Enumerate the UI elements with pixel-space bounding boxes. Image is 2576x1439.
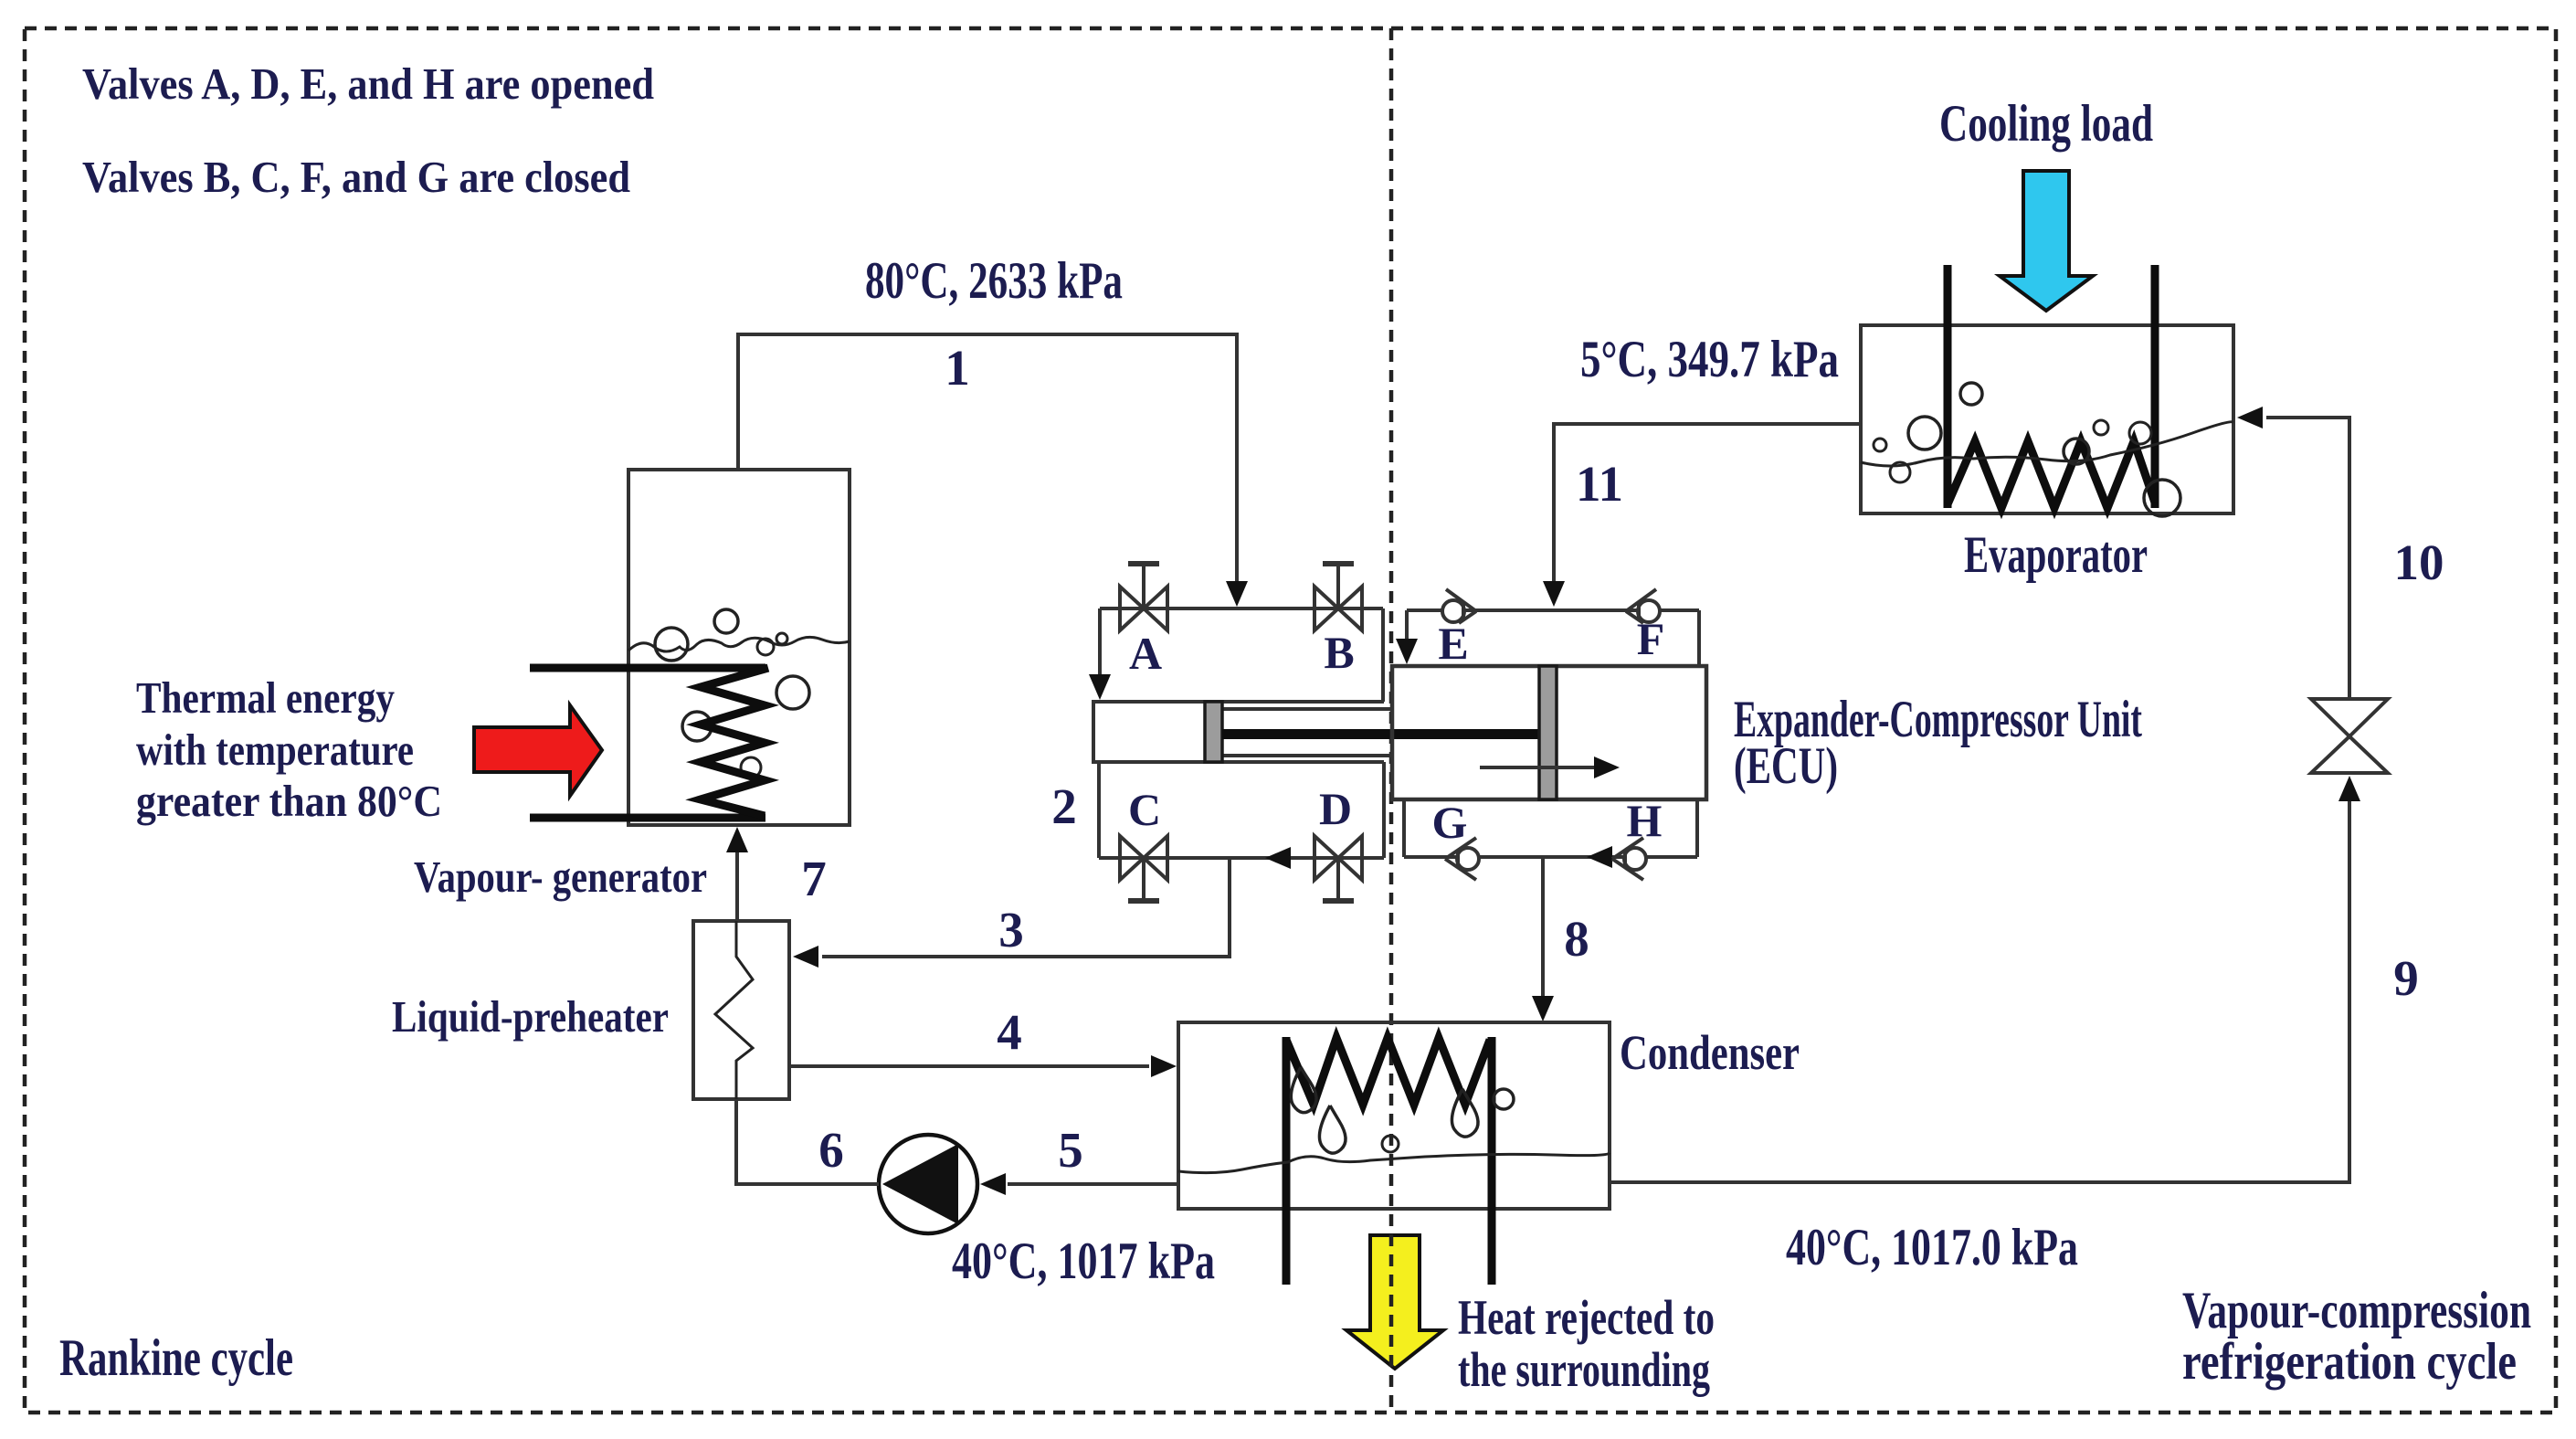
svg-text:F: F — [1637, 613, 1665, 664]
expansion valve — [2311, 699, 2388, 773]
svg-text:G: G — [1432, 797, 1468, 848]
preheater coil — [715, 921, 753, 1099]
valve A — [1120, 564, 1167, 630]
wire E-F line — [1407, 608, 1699, 612]
svg-text:D: D — [1319, 783, 1352, 834]
svg-text:Vapour- generator: Vapour- generator — [414, 852, 707, 902]
check valve F — [1626, 589, 1660, 623]
piston rod — [1222, 729, 1539, 739]
generator heating pipe upper — [530, 664, 765, 672]
svg-text:40°C, 1017.0 kPa: 40°C, 1017.0 kPa — [1786, 1219, 2078, 1276]
expander rod channel walls — [1222, 707, 1392, 711]
wire 7 (preheater to generator) — [735, 851, 739, 921]
svg-text:the surrounding: the surrounding — [1458, 1342, 1710, 1397]
arrowhead wire 5 — [980, 1173, 1006, 1195]
evaporator bubbles — [1960, 383, 1982, 405]
wire left drop to expander top — [1098, 608, 1102, 676]
svg-text:with temperature: with temperature — [136, 725, 414, 775]
evaporator coil — [1948, 441, 2155, 508]
arrowhead wire 10 into evaporator — [2237, 407, 2263, 429]
wire right riser (cylinder bottom to D corner) — [1382, 762, 1386, 858]
valve B — [1314, 564, 1362, 630]
svg-text:Valves A, D, E, and H are open: Valves A, D, E, and H are opened — [82, 58, 654, 109]
condenser box — [1178, 1022, 1610, 1209]
check valve G — [1445, 838, 1479, 880]
cyan arrow (cooling load) — [2000, 171, 2093, 311]
wire A-B line — [1100, 607, 1383, 610]
arrowhead wire 7 — [726, 827, 748, 852]
wire 1 (generator top to A-B line) — [738, 334, 1237, 585]
arrowhead into A-B line — [1226, 581, 1248, 607]
svg-text:9: 9 — [2393, 950, 2419, 1006]
wire E-F right drop — [1697, 610, 1701, 666]
evaporator support bar right — [2151, 265, 2159, 508]
arrowhead on C-D line pointing left — [1265, 847, 1291, 869]
motion arrow inside compressor — [1480, 766, 1597, 769]
svg-text:2: 2 — [1051, 778, 1077, 834]
svg-text:Rankine cycle: Rankine cycle — [59, 1329, 293, 1387]
arrowhead onto expander top — [1089, 674, 1111, 700]
svg-text:Liquid-preheater: Liquid-preheater — [392, 991, 669, 1042]
svg-text:H: H — [1627, 795, 1663, 846]
wire 4 (preheater to condenser) — [789, 1064, 1149, 1068]
condenser support bar left — [1283, 1037, 1291, 1285]
svg-text:refrigeration cycle: refrigeration cycle — [2182, 1333, 2517, 1391]
svg-text:Thermal energy: Thermal energy — [136, 672, 395, 723]
arrowhead wire 9 into expansion valve — [2338, 776, 2360, 801]
wire right drop from B corner — [1381, 608, 1385, 702]
svg-text:11: 11 — [1576, 456, 1623, 512]
generator liquid surface — [628, 637, 850, 651]
svg-text:1: 1 — [945, 340, 970, 396]
wire G-H right riser — [1695, 799, 1699, 857]
generator coil — [701, 668, 768, 816]
svg-text:5°C, 349.7 kPa: 5°C, 349.7 kPa — [1580, 331, 1839, 388]
svg-text:40°C, 1017 kPa: 40°C, 1017 kPa — [952, 1233, 1215, 1290]
arrowhead wire 4 — [1151, 1055, 1177, 1077]
wire 6 (pump to preheater) — [736, 1099, 879, 1184]
liquid preheater box — [693, 921, 789, 1099]
check valve H — [1612, 838, 1646, 880]
yellow arrow (heat rejected) — [1346, 1235, 1443, 1369]
valve C — [1120, 836, 1167, 901]
wire G-H left riser — [1402, 799, 1406, 857]
svg-text:B: B — [1324, 627, 1354, 678]
generator bubbles — [714, 609, 738, 633]
wire left riser (cylinder bottom to C) — [1097, 762, 1101, 858]
pump — [879, 1135, 977, 1233]
vertical dashed separator — [1389, 28, 1394, 1413]
arrowhead onto compressor top — [1396, 639, 1418, 664]
condenser coil — [1286, 1038, 1490, 1105]
wire G-H line — [1404, 855, 1697, 859]
svg-text:Condenser: Condenser — [1620, 1025, 1800, 1080]
wire 5 (condenser to pump) — [1008, 1182, 1178, 1186]
evaporator box — [1861, 325, 2233, 513]
valve D — [1314, 836, 1362, 901]
svg-text:4: 4 — [997, 1004, 1022, 1060]
expander cylinder (left, small) — [1093, 702, 1384, 762]
arrowhead on G-H line pointing left — [1587, 846, 1612, 868]
red arrow (thermal energy input) — [474, 705, 602, 796]
svg-text:6: 6 — [818, 1122, 844, 1178]
condenser support bar right — [1488, 1037, 1496, 1285]
expander piston — [1205, 702, 1222, 762]
condenser droplets — [1291, 1067, 1316, 1113]
compressor piston — [1539, 666, 1557, 799]
evaporator support bar left — [1944, 265, 1952, 508]
wire 9 horizontal (condenser to expansion valve riser) — [1610, 801, 2349, 1182]
svg-text:10: 10 — [2394, 534, 2444, 590]
svg-text:Valves B, C, F, and G are clos: Valves B, C, F, and G are closed — [82, 152, 630, 202]
svg-text:(ECU): (ECU) — [1734, 737, 1838, 795]
check valve E — [1442, 589, 1476, 623]
svg-text:5: 5 — [1058, 1122, 1083, 1178]
arrowhead wire 8 — [1532, 996, 1554, 1021]
svg-text:Vapour-compression: Vapour-compression — [2182, 1282, 2531, 1339]
wire 3 drop from C-D line — [822, 858, 1230, 957]
svg-text:7: 7 — [801, 851, 827, 906]
wire E-F left drop — [1405, 610, 1409, 640]
wire 11 (evaporator to E-F line) — [1554, 424, 1861, 583]
svg-text:C: C — [1128, 784, 1161, 835]
svg-text:Heat rejected to: Heat rejected to — [1458, 1290, 1715, 1345]
generator heating pipe lower — [530, 814, 765, 822]
svg-text:80°C, 2633 kPa: 80°C, 2633 kPa — [865, 252, 1123, 310]
arrowhead wire 3 into preheater — [793, 946, 818, 968]
wire 10 (expansion valve to evaporator) — [2266, 418, 2349, 699]
svg-text:greater than 80°C: greater than 80°C — [136, 776, 442, 826]
arrowhead wire 11 — [1543, 581, 1565, 607]
vapour generator tank — [628, 470, 850, 825]
wire 8 (to condenser) — [1541, 857, 1545, 998]
compressor cylinder (right, large) — [1392, 666, 1706, 799]
svg-text:Cooling load: Cooling load — [1939, 95, 2153, 153]
svg-text:A: A — [1129, 628, 1162, 679]
svg-text:8: 8 — [1564, 911, 1589, 967]
condenser liquid surface — [1178, 1153, 1610, 1173]
svg-text:Evaporator: Evaporator — [1964, 526, 2148, 584]
svg-text:3: 3 — [998, 902, 1024, 958]
wire C-D line — [1099, 856, 1384, 860]
evaporator liquid surface — [1861, 422, 2233, 466]
svg-text:E: E — [1438, 618, 1468, 669]
